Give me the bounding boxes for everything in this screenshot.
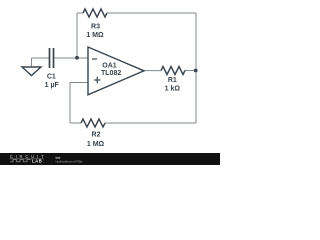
resistor R1 [161, 67, 185, 75]
svg-text:TL082: TL082 [101, 70, 121, 77]
svg-text:R3: R3 [91, 23, 100, 30]
wire (to op-amp non-inverting input) [70, 82, 88, 84]
resistor R2 [81, 119, 105, 127]
wire (top left segment to R3) [77, 12, 83, 14]
svg-text:1 kΩ: 1 kΩ [165, 85, 181, 92]
wire (op-amp output to R1) [144, 70, 161, 72]
wire (R1 to right bus) [185, 70, 196, 72]
wire (bottom right corner to R2) [105, 122, 196, 124]
svg-text:R1: R1 [168, 77, 177, 84]
svg-text:1 µF: 1 µF [45, 82, 60, 89]
node (output junction at right bus) [194, 69, 198, 73]
svg-text:OA1: OA1 [102, 63, 117, 70]
CircuitLab logo underline [10, 158, 44, 160]
capacitor C1 [50, 48, 54, 68]
wire (R2 to bottom left corner) [70, 122, 81, 124]
svg-text:http://circuitlab.com/c/7395jy: http://circuitlab.com/c/7395jy [56, 160, 84, 164]
svg-text:1 MΩ: 1 MΩ [86, 32, 104, 39]
wire (right vertical bus) [195, 13, 197, 123]
wire (R3 to top right corner) [107, 12, 196, 14]
wire (left lower vertical branch) [69, 83, 71, 124]
CircuitLab logo squarewave [10, 160, 31, 162]
wire (C1 right plate to op-amp inverting input) [54, 57, 89, 59]
svg-text:R2: R2 [92, 131, 101, 138]
op-amp OA1 [88, 47, 144, 95]
svg-text:LAB: LAB [32, 159, 42, 164]
wire (ground to C1 left plate) [32, 57, 50, 59]
svg-text:1 MΩ: 1 MΩ [87, 141, 105, 148]
ground [22, 58, 41, 76]
watermark bar [0, 153, 220, 165]
svg-text:C1: C1 [47, 74, 56, 81]
node (inverting input junction) [75, 56, 79, 60]
wire (left vertical branch from R3 down to inverting node) [76, 13, 78, 58]
resistor R3 [83, 9, 107, 17]
